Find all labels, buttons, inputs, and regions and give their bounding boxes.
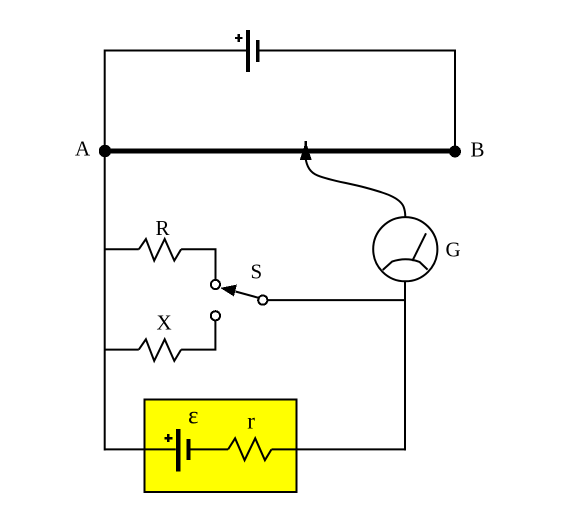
switch contact right pole xyxy=(258,296,267,305)
svg-text:R: R xyxy=(156,216,170,240)
wire bottom left (A side to battery) xyxy=(104,448,176,450)
svg-text:A: A xyxy=(75,137,91,161)
svg-text:ε: ε xyxy=(188,403,199,430)
galvanometer needle xyxy=(412,233,426,261)
switch contact lower (to X) xyxy=(211,311,220,320)
wire bottom right (r to right vertical) xyxy=(272,448,407,450)
node B junction dot xyxy=(449,146,461,158)
wiper arrow on slide wire xyxy=(300,141,312,160)
wire battery to resistor r xyxy=(190,448,228,450)
cell battery negative plate xyxy=(187,439,191,460)
wire R branch right xyxy=(181,249,215,279)
wire R branch left xyxy=(104,248,139,250)
svg-text:S: S xyxy=(251,260,263,284)
svg-text:B: B xyxy=(471,138,485,162)
resistor R zigzag xyxy=(139,239,181,261)
wire right top vertical xyxy=(454,50,456,152)
wire left vertical xyxy=(104,50,106,451)
wire top left horizontal xyxy=(104,50,246,52)
cell battery plus sign xyxy=(164,434,172,442)
cell battery positive plate (EMF) xyxy=(176,429,181,471)
svg-text:r: r xyxy=(247,409,255,434)
slide wire A-B (thick) xyxy=(104,149,456,154)
switch arrowhead xyxy=(220,285,237,297)
driver battery negative plate xyxy=(256,40,260,62)
wire curve wiper to galvanometer xyxy=(306,158,406,218)
wire X branch left xyxy=(104,349,139,351)
resistor r zigzag xyxy=(228,438,271,460)
battery cell highlight box xyxy=(145,400,297,493)
driver battery plus sign xyxy=(235,34,243,42)
wire galvanometer bottom vertical xyxy=(404,281,406,451)
galvanometer scale arc xyxy=(383,259,428,270)
wire X branch right xyxy=(181,321,215,349)
wire switch to right vertical xyxy=(268,299,406,301)
driver battery positive plate xyxy=(246,30,250,72)
svg-text:G: G xyxy=(446,238,461,262)
node A junction dot xyxy=(99,145,111,157)
svg-text:X: X xyxy=(157,311,172,335)
galvanometer G body xyxy=(373,217,437,281)
resistor X zigzag xyxy=(139,339,181,361)
switch contact upper (to R) xyxy=(211,280,220,289)
wire top right horizontal xyxy=(259,50,456,52)
switch blade xyxy=(236,292,259,298)
